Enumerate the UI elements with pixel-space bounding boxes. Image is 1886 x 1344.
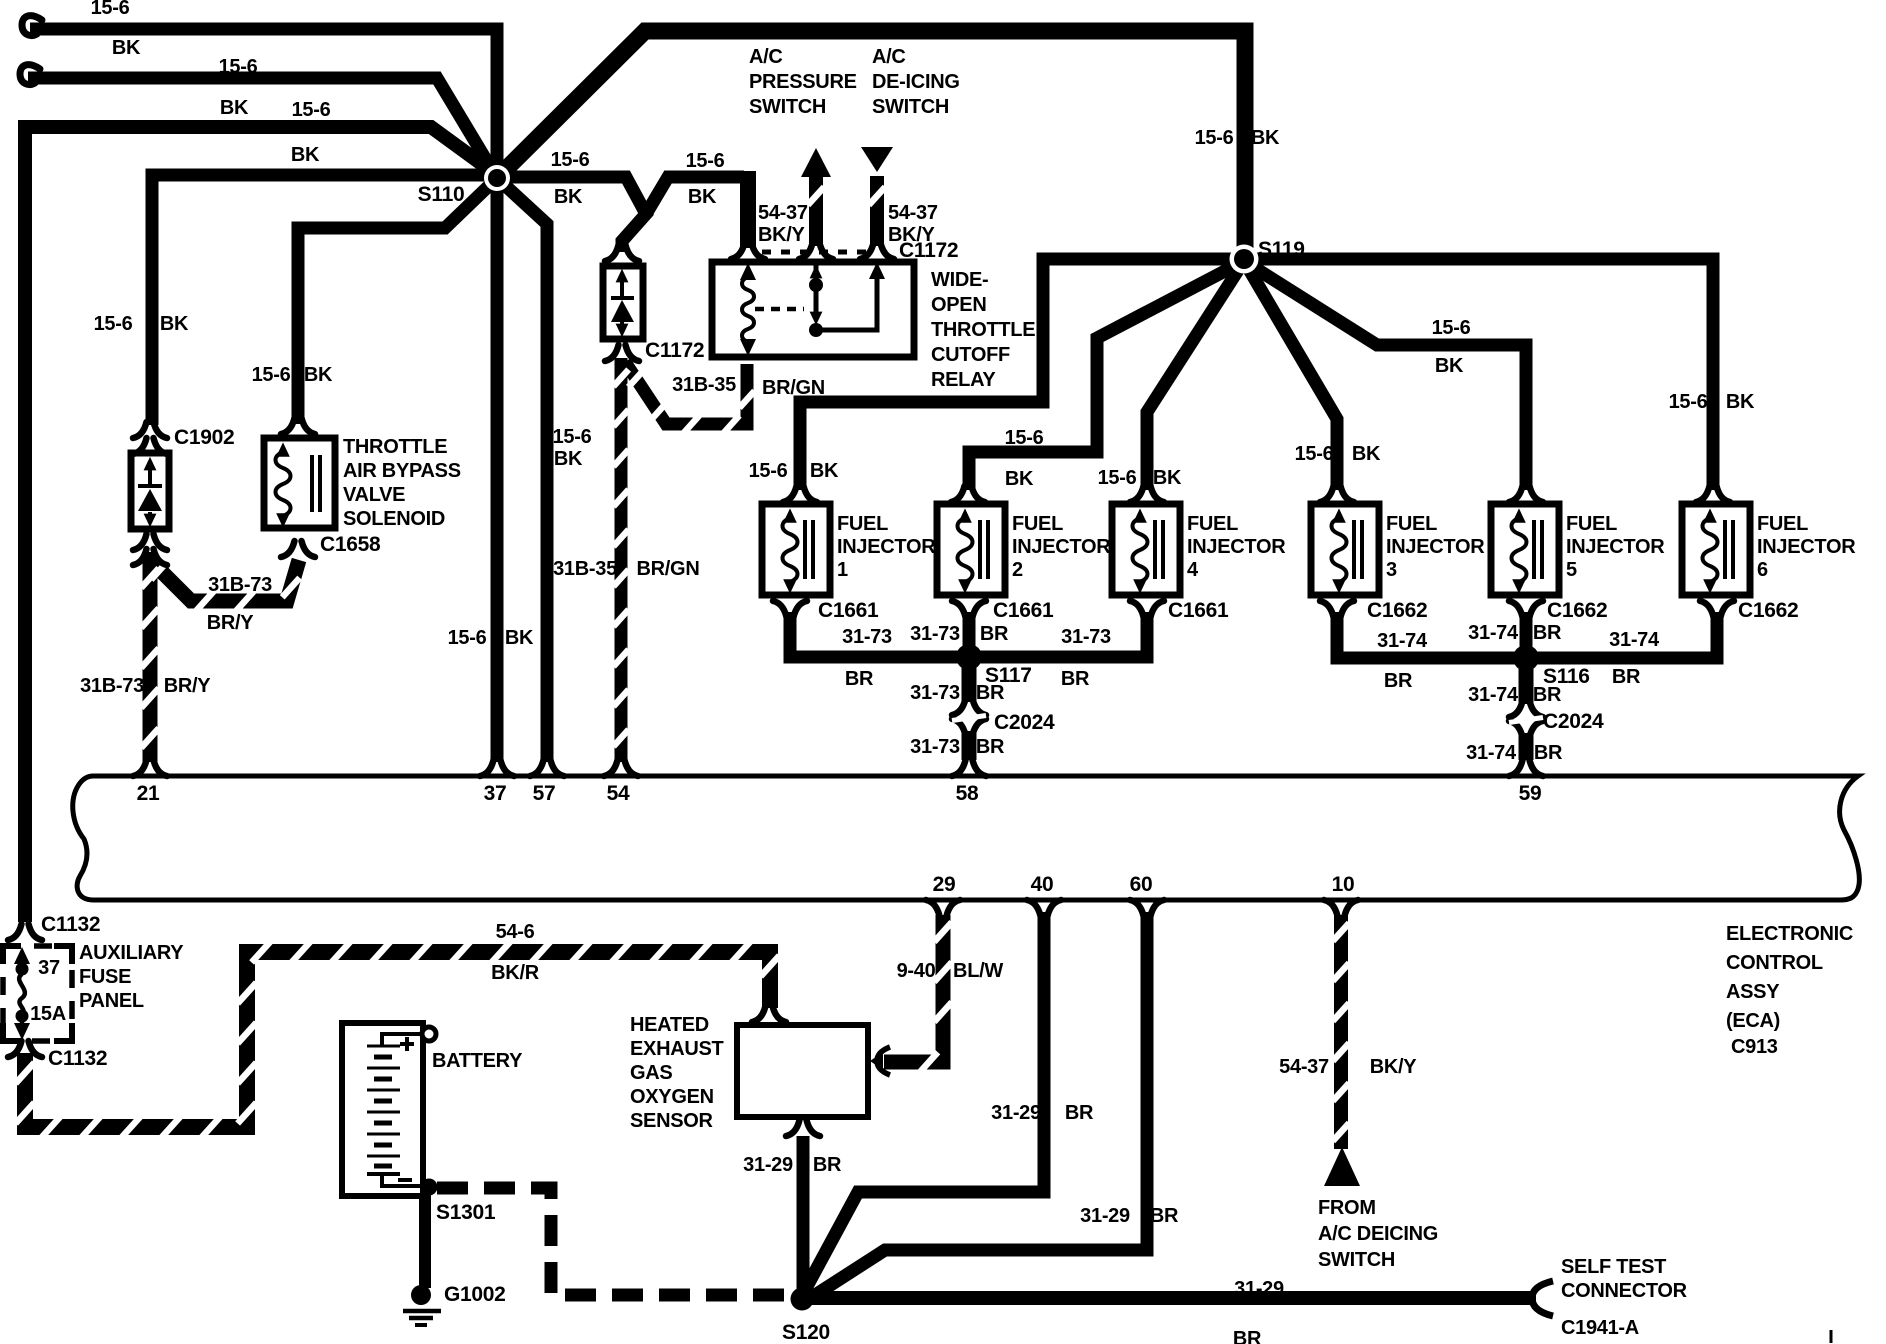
- hatched wire 31B-35 BR/GN diode C1172 to ECA pin 54: [615, 358, 628, 762]
- ECA pin 57 connector flare: [530, 760, 564, 776]
- svg-text:31B-35: 31B-35: [553, 558, 617, 580]
- svg-text:BR: BR: [976, 682, 1005, 704]
- svg-text:31-74: 31-74: [1609, 629, 1660, 651]
- connector C1172 flare at relay pin 2: [799, 243, 833, 259]
- fuel injector 2 coil: [958, 518, 973, 582]
- svg-text:31-74: 31-74: [1468, 684, 1519, 706]
- svg-text:A/C: A/C: [872, 46, 906, 68]
- svg-text:BK: BK: [220, 97, 249, 119]
- svg-text:15-6: 15-6: [252, 364, 291, 386]
- svg-text:FROM: FROM: [1318, 1197, 1376, 1219]
- fuse element arrow down: [20, 1020, 25, 1026]
- connector C1662 flare below injector 6: [1700, 601, 1734, 617]
- battery box: [342, 1023, 423, 1196]
- svg-text:BK: BK: [1153, 467, 1182, 489]
- svg-text:10: 10: [1332, 873, 1355, 896]
- wire 15-6 BK from S110 to throttle air bypass valve solenoid: [298, 178, 497, 424]
- svg-text:31-74: 31-74: [1466, 742, 1517, 764]
- svg-text:INJECTOR: INJECTOR: [1757, 536, 1856, 558]
- svg-text:C1661: C1661: [1168, 599, 1229, 622]
- splice S110: [484, 165, 510, 191]
- svg-text:5: 5: [1566, 559, 1577, 581]
- svg-text:SENSOR: SENSOR: [630, 1110, 714, 1132]
- svg-text:31-29: 31-29: [743, 1154, 793, 1176]
- wire 15-6 BK from S110 down to C1902: [152, 175, 497, 425]
- svg-text:INJECTOR: INJECTOR: [1566, 536, 1665, 558]
- svg-text:AIR BYPASS: AIR BYPASS: [343, 460, 461, 482]
- fuel injector 4 top connector flare: [1130, 486, 1164, 502]
- hatched wire 31B-35 BR/GN diode C1172 to relay coil: [625, 362, 747, 424]
- fuel injector 4 box: [1112, 504, 1180, 595]
- svg-text:C1941-A: C1941-A: [1561, 1317, 1639, 1339]
- fuel injector 2 top connector flare: [951, 486, 985, 502]
- wire 15-6 BK from S110 to ECA pin 37: [491, 178, 504, 762]
- svg-text:40: 40: [1031, 873, 1054, 896]
- svg-text:ELECTRONIC: ELECTRONIC: [1726, 923, 1853, 945]
- connector arc at oxygen sensor right side: [877, 1047, 890, 1075]
- battery internal top link: [382, 1034, 420, 1046]
- svg-text:31-74: 31-74: [1377, 630, 1428, 652]
- splice S120: [791, 1288, 814, 1311]
- relay switch contact dot lower: [809, 323, 823, 337]
- wire 15-6 BK S119 to fuel injector 2: [969, 261, 1244, 490]
- fuel injector 1 pintle bars: [805, 520, 813, 579]
- fuel injector 1 coil arrow up: [783, 508, 797, 522]
- hatched wire 54-37 BK/Y from A/C de-icing switch to relay: [870, 176, 884, 246]
- wire 31-74 BR injector 5 to S116: [1520, 612, 1533, 658]
- connector C1132 flare above fuse panel: [8, 924, 42, 940]
- svg-text:BK: BK: [1435, 355, 1464, 377]
- svg-text:15-6: 15-6: [292, 99, 331, 121]
- ECA pin 58 connector flare: [952, 760, 986, 776]
- svg-text:15-6: 15-6: [91, 0, 130, 19]
- svg-text:A/C: A/C: [749, 46, 783, 68]
- wire 15-6 BK from C1132 up left edge to S110: [25, 127, 494, 922]
- svg-text:C1662: C1662: [1367, 599, 1427, 622]
- hatched wire 31B-73 BR/Y C1902 to C1658: [150, 552, 299, 601]
- svg-text:GAS: GAS: [630, 1062, 672, 1084]
- svg-text:BK: BK: [554, 186, 583, 208]
- wire 31-74 BR C2024 to ECA pin 59: [1519, 733, 1534, 760]
- svg-text:54-6: 54-6: [496, 921, 535, 943]
- triangle arrow to A/C pressure switch: [801, 148, 831, 177]
- svg-text:15-6: 15-6: [551, 149, 590, 171]
- svg-text:60: 60: [1130, 873, 1153, 896]
- connector flare below oxygen sensor: [786, 1120, 820, 1136]
- svg-text:SWITCH: SWITCH: [1318, 1249, 1395, 1271]
- svg-text:BR: BR: [813, 1154, 842, 1176]
- page mark: [1830, 1330, 1833, 1343]
- wire end hook 1: [22, 16, 42, 36]
- svg-text:54-37: 54-37: [1279, 1056, 1329, 1078]
- svg-text:FUEL: FUEL: [1187, 513, 1238, 535]
- svg-text:VALVE: VALVE: [343, 484, 405, 506]
- wire 15-6 BK S119 to fuel injector 5: [1244, 261, 1526, 490]
- dashed wire battery S1301 to S120: [437, 1188, 786, 1295]
- svg-text:15-6: 15-6: [1432, 317, 1471, 339]
- fuel injector 5 coil arrow down: [1512, 579, 1526, 593]
- svg-text:BK: BK: [160, 313, 189, 335]
- hatched wire 31B-73 BR/Y C1902 to ECA pin 21: [143, 558, 158, 762]
- svg-text:BK/Y: BK/Y: [758, 224, 806, 246]
- svg-text:31-29: 31-29: [1234, 1278, 1284, 1300]
- svg-text:FUEL: FUEL: [1386, 513, 1437, 535]
- svg-text:15-6: 15-6: [1295, 443, 1334, 465]
- ECA pin 10 connector flare: [1324, 900, 1358, 916]
- relay switch arrow up at pin: [810, 265, 823, 279]
- svg-text:PANEL: PANEL: [79, 990, 144, 1012]
- svg-text:54-37: 54-37: [758, 202, 808, 224]
- solenoid coil arrow down: [276, 513, 290, 527]
- svg-text:BR: BR: [976, 736, 1005, 758]
- svg-text:BR/Y: BR/Y: [164, 675, 212, 697]
- fuse element top dot: [16, 963, 29, 976]
- svg-text:FUEL: FUEL: [1012, 513, 1063, 535]
- diode assembly C1902 box: [131, 453, 169, 529]
- svg-text:C1661: C1661: [818, 599, 879, 622]
- svg-text:15-6: 15-6: [448, 627, 487, 649]
- fuel injector 6 coil arrow up: [1703, 508, 1717, 522]
- svg-text:15-6: 15-6: [1005, 427, 1044, 449]
- wire 31-74 BR bus injectors 3,5,6 to S116: [1337, 612, 1717, 658]
- fuel injector 3 coil arrow down: [1332, 579, 1346, 593]
- svg-text:S1301: S1301: [436, 1201, 496, 1224]
- ECA pin 54 connector flare: [604, 760, 638, 776]
- svg-text:37: 37: [38, 957, 60, 979]
- ECA pin 59 connector flare: [1509, 760, 1543, 776]
- svg-text:C1662: C1662: [1738, 599, 1798, 622]
- svg-text:RELAY: RELAY: [931, 369, 996, 391]
- svg-text:HEATED: HEATED: [630, 1014, 709, 1036]
- svg-text:31-73: 31-73: [842, 626, 892, 648]
- connector C1172 flare at relay pin 3: [860, 243, 894, 259]
- svg-text:AUXILIARY: AUXILIARY: [79, 942, 184, 964]
- svg-text:S119: S119: [1258, 238, 1305, 261]
- svg-text:15-6: 15-6: [686, 150, 725, 172]
- svg-text:15-6: 15-6: [219, 56, 258, 78]
- battery plus sign: [400, 1037, 414, 1051]
- C1902 diode arrow down: [144, 514, 157, 528]
- ECA pin 29 connector flare: [926, 900, 960, 916]
- ECA pin 37 connector flare: [480, 760, 514, 776]
- svg-text:BR: BR: [1612, 666, 1641, 688]
- svg-text:31B-73: 31B-73: [80, 675, 144, 697]
- fuel injector 6 coil: [1703, 518, 1718, 582]
- connector C2024 pin 59: [1509, 701, 1543, 717]
- svg-text:C1132: C1132: [41, 913, 100, 936]
- svg-text:6: 6: [1757, 559, 1768, 581]
- svg-text:15-6: 15-6: [1195, 127, 1234, 149]
- fuel injector 5 pintle bars: [1534, 520, 1542, 579]
- fuel injector 1 coil: [783, 518, 798, 582]
- ECA pin 60 connector flare: [1130, 900, 1164, 916]
- ground G1002 symbol: [403, 1311, 441, 1325]
- svg-text:C2024: C2024: [994, 711, 1055, 734]
- wire 15-6 BK S119 to fuel injector 4: [1147, 261, 1244, 490]
- svg-text:BK: BK: [1005, 468, 1034, 490]
- fuel injector 3 coil: [1332, 518, 1347, 582]
- connector C1902 flares below box: [133, 534, 167, 550]
- svg-text:WIDE-: WIDE-: [931, 269, 988, 291]
- svg-text:C2024: C2024: [1543, 710, 1604, 733]
- svg-text:BK/R: BK/R: [491, 962, 540, 984]
- triangle arrow from A/C deicing switch to pin 10: [1324, 1147, 1360, 1186]
- svg-text:BATTERY: BATTERY: [432, 1050, 523, 1072]
- connector C1662 flare below injector 3: [1320, 601, 1354, 617]
- svg-text:15A: 15A: [30, 1003, 66, 1025]
- connector C2024 pin 58: [952, 699, 986, 715]
- svg-text:31-73: 31-73: [1061, 626, 1111, 648]
- fuel injector 2 coil arrow up: [958, 508, 972, 522]
- fuel injector 4 coil arrow up: [1133, 508, 1147, 522]
- connector C1172 flare below diode: [605, 345, 639, 361]
- svg-text:31-29: 31-29: [991, 1102, 1041, 1124]
- wire 31-29 BR heated exhaust gas oxygen sensor to S120: [797, 1136, 810, 1294]
- svg-text:G1002: G1002: [444, 1283, 506, 1306]
- svg-text:BR: BR: [980, 623, 1009, 645]
- relay switch contact dot upper: [809, 278, 823, 292]
- svg-text:INJECTOR: INJECTOR: [1012, 536, 1111, 558]
- fuel injector 2 coil arrow down: [958, 579, 972, 593]
- self test connector C1941-A symbol: [1532, 1281, 1553, 1316]
- fuel injector 3 pintle bars: [1354, 520, 1362, 579]
- svg-text:BR: BR: [1534, 742, 1563, 764]
- wire 15-6 BK from S110 to ECA pin 57: [497, 178, 547, 762]
- svg-text:2: 2: [1012, 559, 1023, 581]
- splice S117: [956, 644, 982, 670]
- svg-text:C1658: C1658: [320, 533, 381, 556]
- svg-text:SWITCH: SWITCH: [749, 96, 826, 118]
- fuel injector 1 top connector flare: [783, 486, 817, 502]
- svg-text:C1172: C1172: [645, 339, 704, 362]
- connector C1132 flare below fuse panel: [8, 1041, 42, 1057]
- fuse element arrow up: [14, 947, 30, 964]
- svg-text:BK: BK: [291, 144, 320, 166]
- wire battery negative to G1002 ground: [419, 1194, 431, 1288]
- svg-text:DE-ICING: DE-ICING: [872, 71, 960, 93]
- relay switch arrow up to box top: [869, 262, 885, 279]
- svg-text:31B-35: 31B-35: [672, 374, 736, 396]
- svg-text:C1902: C1902: [174, 426, 234, 449]
- svg-text:BR: BR: [1150, 1205, 1179, 1227]
- fuse panel corner brackets: [3, 946, 72, 1041]
- fuel injector 5 coil: [1512, 518, 1527, 582]
- svg-text:BK: BK: [505, 627, 534, 649]
- svg-text:INJECTOR: INJECTOR: [1386, 536, 1485, 558]
- fuel injector 6 pintle bars: [1725, 520, 1733, 579]
- relay coil arrow up: [740, 263, 756, 280]
- hatched wire 9-40 BL/W ECA pin 29 to oxygen sensor: [884, 915, 943, 1062]
- svg-text:THROTTLE: THROTTLE: [343, 436, 447, 458]
- svg-text:54-37: 54-37: [888, 202, 938, 224]
- triangle arrow from A/C de-icing switch: [861, 147, 893, 172]
- svg-text:CUTOFF: CUTOFF: [931, 344, 1010, 366]
- svg-text:CONNECTOR: CONNECTOR: [1561, 1280, 1688, 1302]
- svg-text:BR: BR: [1533, 622, 1562, 644]
- fuel injector 6 box: [1682, 504, 1750, 595]
- ground G1002 dot: [411, 1285, 431, 1305]
- solenoid core bars: [312, 455, 320, 512]
- fuse element squiggle: [19, 974, 25, 1014]
- svg-text:15-6: 15-6: [1669, 391, 1708, 413]
- connector C1172 flare at relay pin 1: [731, 243, 765, 259]
- svg-text:BK: BK: [112, 37, 141, 59]
- solenoid coil: [276, 452, 291, 516]
- svg-text:PRESSURE: PRESSURE: [749, 71, 857, 93]
- fuel injector 1 box: [762, 504, 830, 595]
- wire 15-6 BK branch to wide-open throttle cutoff relay: [646, 177, 744, 214]
- svg-text:SELF TEST: SELF TEST: [1561, 1256, 1666, 1278]
- svg-text:INJECTOR: INJECTOR: [1187, 536, 1286, 558]
- svg-text:BK/Y: BK/Y: [1370, 1056, 1418, 1078]
- svg-text:BR/Y: BR/Y: [207, 612, 255, 634]
- fuel injector 2 pintle bars: [980, 520, 988, 579]
- hatched wire 54-6 BK/R auxiliary fuse panel to heated exhaust gas oxygen sensor: [25, 952, 770, 1127]
- connector C1661 flare below injector 4: [1130, 601, 1164, 617]
- svg-text:31-73: 31-73: [910, 623, 960, 645]
- wire 31-73 BR injector 2 to S117: [963, 612, 976, 657]
- svg-text:C1662: C1662: [1547, 599, 1607, 622]
- svg-text:1: 1: [837, 559, 848, 581]
- svg-text:C1661: C1661: [993, 599, 1054, 622]
- svg-text:BK: BK: [810, 460, 839, 482]
- fuel injector 5 box: [1491, 504, 1559, 595]
- svg-text:C1172: C1172: [899, 239, 958, 262]
- heated exhaust gas oxygen sensor box: [737, 1025, 868, 1117]
- wire 15-6 BK from hook 2 to S110: [28, 78, 497, 178]
- diode arrow down: [616, 324, 629, 338]
- svg-text:BK: BK: [1726, 391, 1755, 413]
- svg-text:C1132: C1132: [48, 1047, 107, 1070]
- wire 31-73 BR C2024 to ECA pin 58: [962, 731, 977, 760]
- svg-text:BR/GN: BR/GN: [762, 377, 825, 399]
- svg-text:S120: S120: [782, 1321, 830, 1344]
- wire end hook 2: [20, 65, 40, 85]
- svg-text:(ECA): (ECA): [1726, 1010, 1780, 1032]
- svg-text:BR/GN: BR/GN: [637, 558, 700, 580]
- fuel injector 3 coil arrow up: [1332, 508, 1346, 522]
- hatched wire 54-37 BK/Y from A/C pressure switch to relay: [809, 176, 823, 246]
- connector C1658 flare below solenoid: [281, 541, 315, 557]
- connector C1902 flares above box: [133, 422, 167, 438]
- fuel injector 2 box: [937, 504, 1005, 595]
- C1902 diode arrow up: [144, 457, 157, 471]
- diode symbol: [611, 274, 634, 328]
- svg-text:BK: BK: [1352, 443, 1381, 465]
- svg-text:C913: C913: [1731, 1036, 1778, 1058]
- wire 15-6 BK S119 to fuel injector 3: [1244, 261, 1337, 490]
- svg-text:15-6: 15-6: [749, 460, 788, 482]
- svg-text:9-40: 9-40: [897, 960, 936, 982]
- wire 31-29 BR S120 to self test connector: [802, 1291, 1536, 1305]
- diode module box near relay: [603, 266, 643, 339]
- connector flare above oxygen sensor: [752, 1006, 786, 1022]
- svg-text:OPEN: OPEN: [931, 294, 986, 316]
- fuse element bottom dot: [16, 1010, 29, 1023]
- svg-text:FUSE: FUSE: [79, 966, 131, 988]
- svg-text:37: 37: [484, 782, 507, 805]
- svg-text:15-6: 15-6: [94, 313, 133, 335]
- fuel injector 6 top connector flare: [1696, 486, 1730, 502]
- wire 31-29 BR ECA pin 40 to S120: [804, 912, 1044, 1292]
- svg-text:S110: S110: [418, 183, 465, 206]
- relay switch arm: [816, 262, 877, 330]
- svg-text:31-29: 31-29: [1080, 1205, 1130, 1227]
- svg-text:BK: BK: [554, 448, 583, 470]
- connector flare above solenoid: [281, 418, 315, 434]
- wire 31-74 BR S116 to C2024: [1519, 658, 1534, 704]
- battery cell plates: [367, 1046, 420, 1186]
- svg-text:15-6: 15-6: [1098, 467, 1137, 489]
- connector C1662 flare below injector 5: [1509, 601, 1543, 617]
- svg-text:BL/W: BL/W: [953, 960, 1003, 982]
- fuel injector 3 top connector flare: [1320, 486, 1354, 502]
- relay coil arrow down: [740, 339, 756, 356]
- battery positive terminal circle: [422, 1027, 436, 1041]
- fuel injector 5 top connector flare: [1509, 486, 1543, 502]
- wire 31-73 BR S117 to C2024: [962, 657, 977, 702]
- svg-text:4: 4: [1187, 559, 1199, 581]
- wire 15-6 BK from hook 1 to S110: [30, 29, 497, 178]
- wire 15-6 BK from S110 to diode C1172: [497, 177, 646, 252]
- svg-text:BR: BR: [845, 668, 874, 690]
- wire 31-29 BR ECA pin 60 to S120: [812, 912, 1147, 1297]
- auxiliary fuse panel dashed box: [3, 946, 72, 1041]
- svg-text:FUEL: FUEL: [1757, 513, 1808, 535]
- connector C1661 flare below injector 2: [952, 601, 986, 617]
- ECA pin 21 connector flare: [133, 760, 167, 776]
- trunk wire 15-6 BK from S110 to S119: [497, 31, 1245, 259]
- svg-text:31B-73: 31B-73: [208, 574, 272, 596]
- svg-text:BR: BR: [1065, 1102, 1094, 1124]
- svg-text:BK: BK: [1251, 127, 1280, 149]
- wire 31-73 BR bus injectors 1,2,4 to S117: [790, 612, 1147, 657]
- svg-text:31-74: 31-74: [1468, 622, 1519, 644]
- svg-text:CONTROL: CONTROL: [1726, 952, 1823, 974]
- svg-text:A/C DEICING: A/C DEICING: [1318, 1223, 1438, 1245]
- wire 15-6 BK S119 to fuel injector 6: [1244, 259, 1713, 490]
- connector C1661 flare below injector 1: [773, 601, 807, 617]
- svg-text:BR: BR: [1233, 1328, 1262, 1344]
- svg-text:FUEL: FUEL: [1566, 513, 1617, 535]
- svg-text:15-6: 15-6: [553, 426, 592, 448]
- connector C1172 flare above diode: [605, 245, 639, 261]
- C1902 diode symbol: [138, 462, 162, 518]
- svg-text:SOLENOID: SOLENOID: [343, 508, 445, 530]
- throttle air bypass valve solenoid box: [264, 438, 335, 528]
- svg-text:OXYGEN: OXYGEN: [630, 1086, 714, 1108]
- svg-text:FUEL: FUEL: [837, 513, 888, 535]
- svg-text:59: 59: [1519, 782, 1542, 805]
- relay coil: [742, 277, 754, 342]
- svg-text:BR: BR: [1061, 668, 1090, 690]
- svg-text:BR: BR: [1533, 684, 1562, 706]
- ECA pin 40 connector flare: [1027, 900, 1061, 916]
- wire 15-6 BK vertical drop into relay pin 1: [740, 171, 756, 248]
- wire 15-6 BK S119 to fuel injector 1: [800, 259, 1244, 490]
- svg-text:BK: BK: [688, 186, 717, 208]
- splice S119: [1230, 245, 1259, 274]
- solenoid coil arrow up: [276, 442, 290, 456]
- splice S116: [1513, 645, 1539, 671]
- fuel injector 6 coil arrow down: [1703, 579, 1717, 593]
- svg-text:SWITCH: SWITCH: [872, 96, 949, 118]
- svg-text:54: 54: [607, 782, 630, 805]
- svg-text:BR: BR: [1384, 670, 1413, 692]
- svg-text:29: 29: [933, 873, 956, 896]
- diode arrow up: [616, 269, 629, 283]
- hatched wire 54-37 BK/Y ECA pin 10 to A/C deicing switch: [1334, 915, 1348, 1149]
